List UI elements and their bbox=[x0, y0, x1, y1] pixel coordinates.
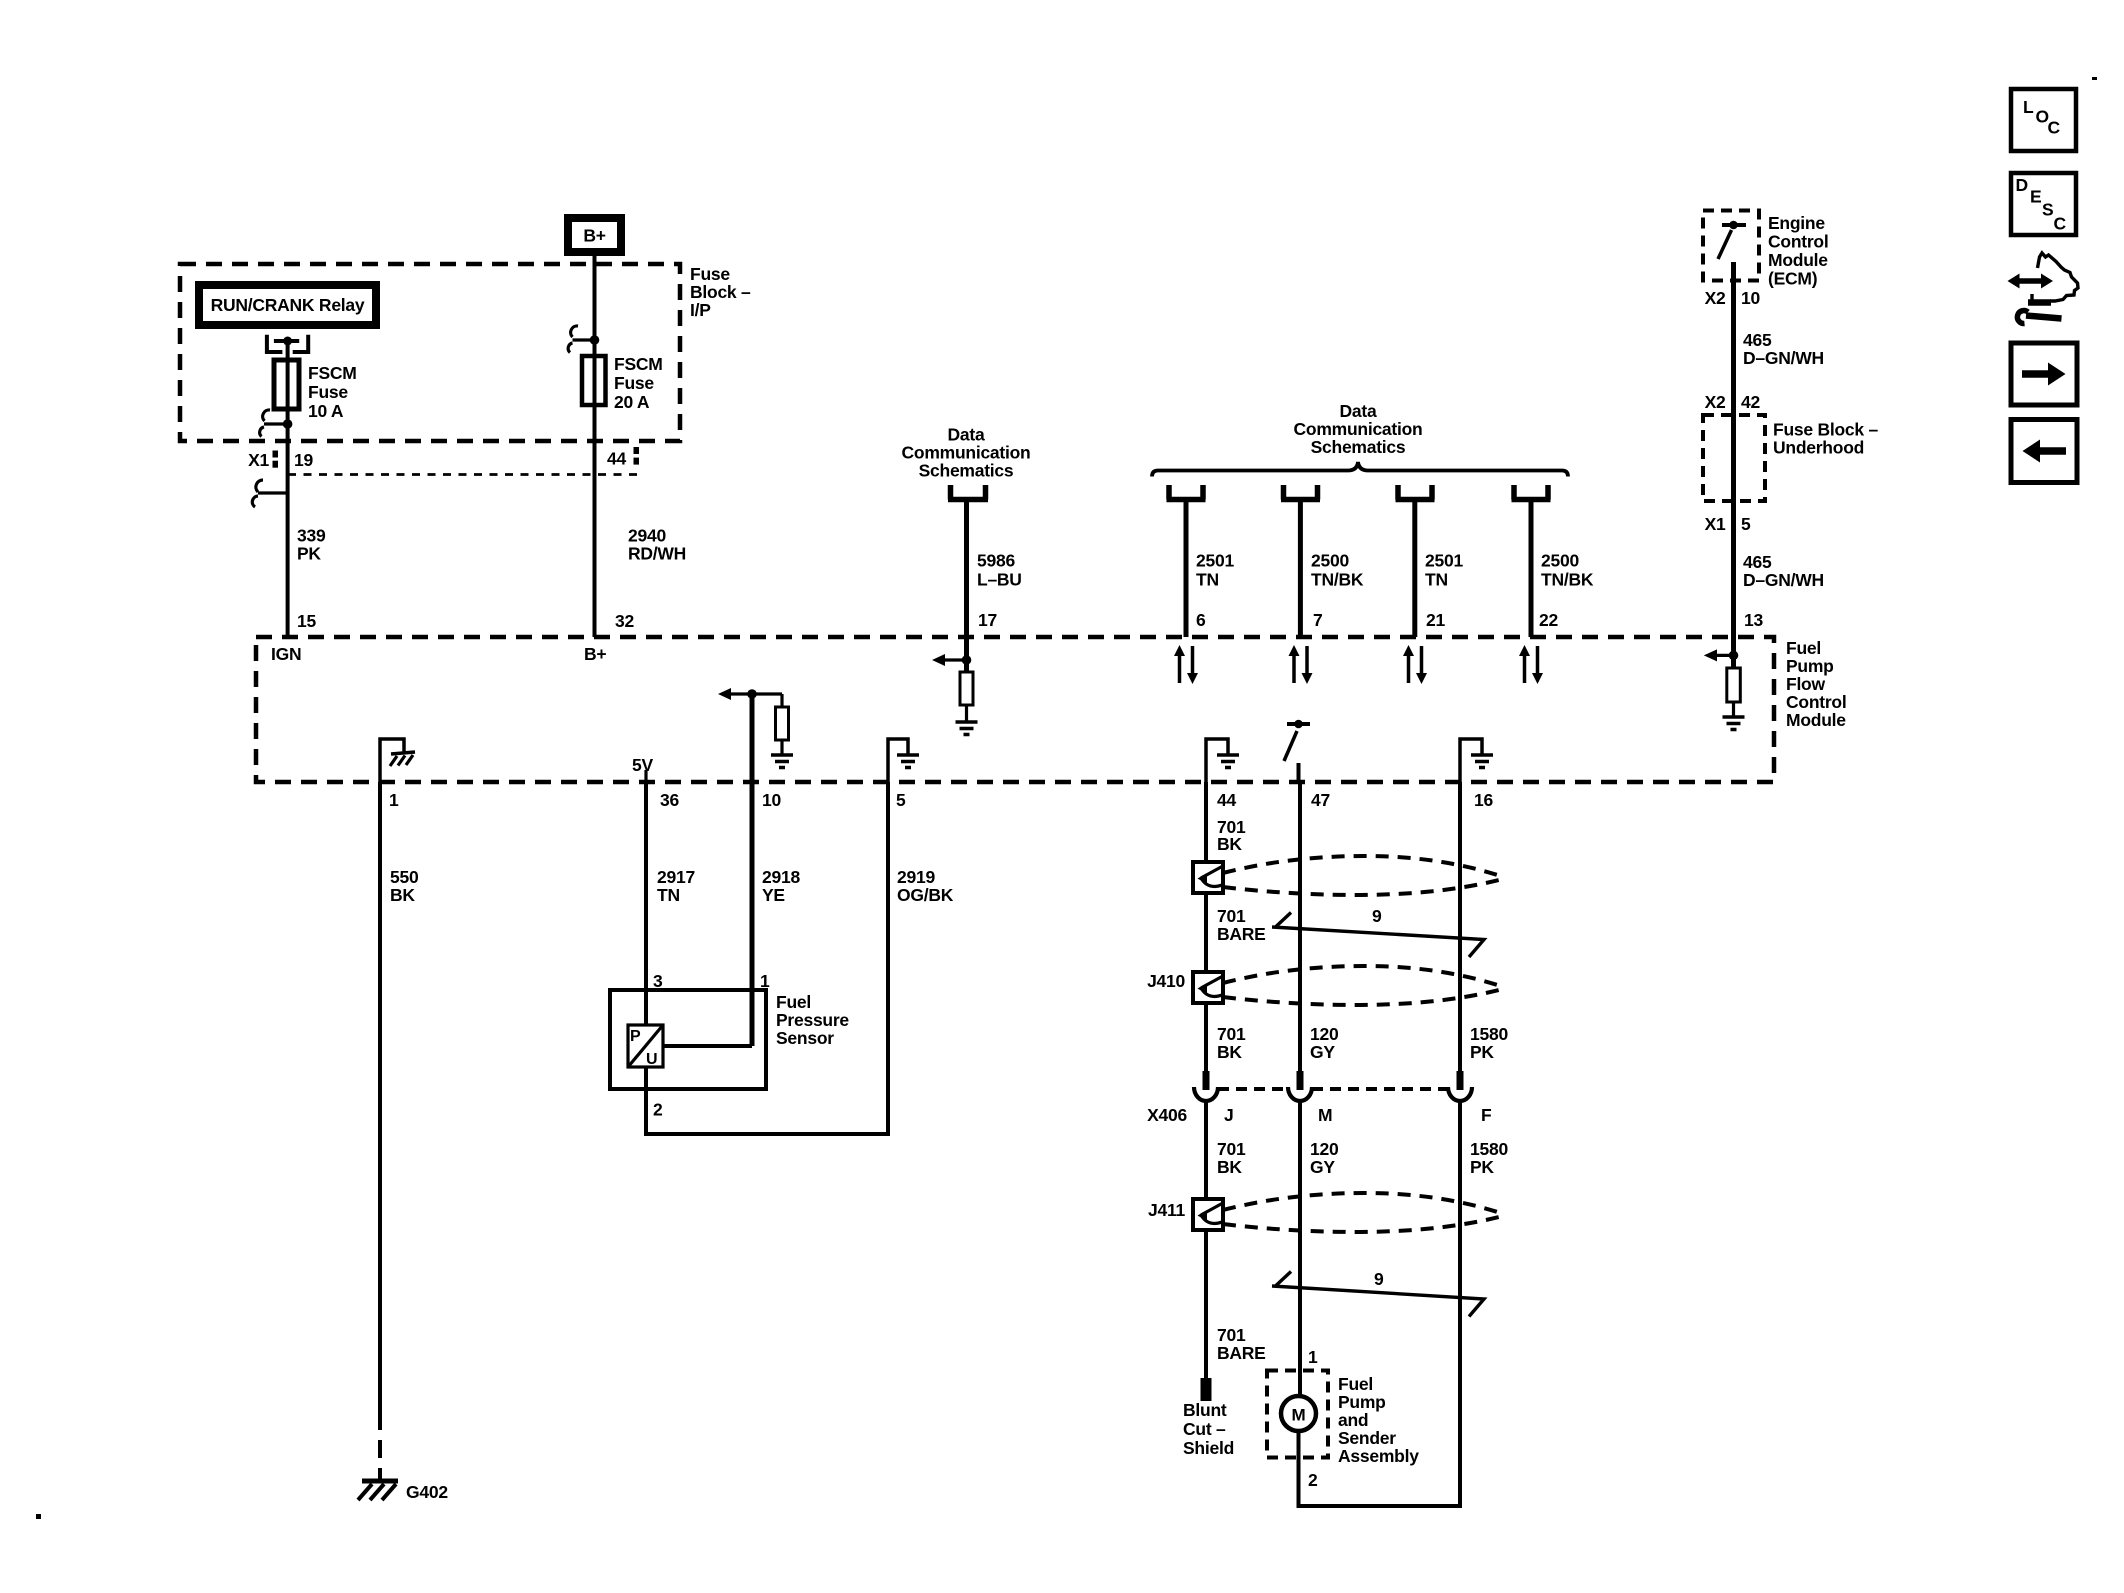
ground G402 bbox=[362, 1479, 398, 1484]
fuse F2 FSCM Fuse 20A bbox=[582, 356, 606, 405]
svg-text:Schematics: Schematics bbox=[1311, 437, 1406, 457]
svg-text:2501: 2501 bbox=[1425, 551, 1463, 571]
svg-text:TN: TN bbox=[1196, 570, 1219, 590]
svg-text:44: 44 bbox=[607, 449, 626, 469]
wire 1580 PK X406 down bbox=[1458, 1101, 1462, 1508]
svg-text:5V: 5V bbox=[632, 755, 653, 775]
svg-text:Block –: Block – bbox=[690, 282, 751, 302]
pin 13 internal: node, arrow, resistor, ground bbox=[1731, 637, 1736, 668]
svg-text:2500: 2500 bbox=[1311, 551, 1349, 571]
wire 701 BK X406 to J411 bbox=[1204, 1101, 1208, 1201]
pin 6 internal arrows bbox=[1174, 645, 1198, 684]
wire ECM pin X2-10 bbox=[1731, 262, 1736, 417]
svg-text:13: 13 bbox=[1744, 610, 1763, 630]
svg-text:GY: GY bbox=[1310, 1042, 1335, 1062]
svg-text:2919: 2919 bbox=[897, 867, 935, 887]
svg-text:5: 5 bbox=[896, 790, 906, 810]
svg-text:339: 339 bbox=[297, 526, 326, 546]
svg-text:D–GN/WH: D–GN/WH bbox=[1743, 348, 1824, 368]
svg-text:Communication: Communication bbox=[1294, 419, 1423, 439]
wire 2917 TN (pin 36 to sensor pin 3) bbox=[644, 782, 648, 1026]
svg-text:L: L bbox=[2023, 97, 2034, 117]
svg-text:Blunt: Blunt bbox=[1183, 1400, 1227, 1420]
svg-text:Sender: Sender bbox=[1338, 1428, 1396, 1448]
wire 2500 TN/BK to pin 7 bbox=[1298, 500, 1303, 638]
svg-text:Schematics: Schematics bbox=[919, 461, 1014, 481]
svg-text:Communication: Communication bbox=[902, 443, 1031, 463]
svg-text:OG/BK: OG/BK bbox=[897, 885, 954, 905]
svg-text:and: and bbox=[1338, 1410, 1368, 1430]
svg-text:47: 47 bbox=[1311, 790, 1330, 810]
svg-text:X1: X1 bbox=[248, 450, 269, 470]
svg-text:Module: Module bbox=[1786, 710, 1846, 730]
stray mark top right bbox=[2092, 77, 2097, 80]
svg-text:10: 10 bbox=[762, 790, 781, 810]
svg-text:FSCM: FSCM bbox=[308, 363, 357, 383]
relay contact bbox=[267, 335, 283, 352]
svg-text:Fuse: Fuse bbox=[690, 264, 730, 284]
svg-text:6: 6 bbox=[1196, 610, 1206, 630]
wire pump pin 2 loop to 1580 PK bbox=[1297, 1431, 1301, 1508]
wire 2501 TN to pin 21 bbox=[1412, 500, 1417, 638]
svg-text:Fuse: Fuse bbox=[308, 382, 348, 402]
off-page connector for wire 5986 bbox=[948, 485, 988, 500]
svg-text:X1: X1 bbox=[1705, 514, 1726, 534]
svg-text:2: 2 bbox=[653, 1100, 663, 1120]
shield ellipse 3 bbox=[1223, 1193, 1505, 1215]
wire 2918 YE (pin 10 to sensor pin 1) bbox=[750, 694, 755, 1046]
svg-text:M: M bbox=[1318, 1105, 1332, 1125]
node above fuse 20A with hook bbox=[590, 335, 600, 345]
motor M1 Fuel Pump and Sender Assembly dashed box bbox=[1267, 1371, 1328, 1458]
shield ellipse 1 bbox=[1223, 856, 1505, 878]
svg-text:465: 465 bbox=[1743, 330, 1772, 350]
wire B+ to fuse 20A bbox=[593, 255, 597, 358]
svg-text:2917: 2917 bbox=[657, 867, 695, 887]
svg-text:Pump: Pump bbox=[1338, 1392, 1386, 1412]
svg-text:19: 19 bbox=[294, 450, 313, 470]
svg-text:RUN/CRANK Relay: RUN/CRANK Relay bbox=[211, 295, 365, 315]
svg-text:1580: 1580 bbox=[1470, 1024, 1508, 1044]
svg-text:U: U bbox=[646, 1051, 657, 1068]
svg-text:PK: PK bbox=[297, 544, 321, 564]
svg-text:Engine: Engine bbox=[1768, 213, 1825, 233]
svg-text:21: 21 bbox=[1426, 610, 1445, 630]
brace over data wires bbox=[1152, 462, 1568, 477]
svg-text:2500: 2500 bbox=[1541, 551, 1579, 571]
svg-text:S: S bbox=[2042, 200, 2053, 220]
svg-text:1: 1 bbox=[389, 790, 399, 810]
wire 5986 L-BU bbox=[964, 500, 969, 638]
pin 10 internal: node, arrow, resistor, ground bbox=[747, 689, 757, 699]
wire pin2 to 2919 bbox=[644, 1132, 890, 1136]
svg-text:Data: Data bbox=[948, 425, 985, 445]
svg-text:IGN: IGN bbox=[271, 644, 301, 664]
svg-text:42: 42 bbox=[1741, 392, 1760, 412]
module U2 Engine Control Module dashed box bbox=[1703, 211, 1759, 281]
pin 1 internal chassis ground bbox=[380, 739, 404, 782]
svg-text:Pump: Pump bbox=[1786, 656, 1834, 676]
svg-text:Fuse Block –: Fuse Block – bbox=[1773, 420, 1878, 440]
wire 701 BARE to blunt cut bbox=[1204, 1230, 1208, 1380]
blunt cut shield terminal bbox=[1201, 1378, 1212, 1401]
svg-text:701: 701 bbox=[1217, 906, 1246, 926]
svg-text:GY: GY bbox=[1310, 1157, 1335, 1177]
svg-text:BK: BK bbox=[1217, 1157, 1242, 1177]
svg-text:550: 550 bbox=[390, 867, 419, 887]
hook on wire 339 bbox=[258, 491, 288, 494]
svg-text:BARE: BARE bbox=[1217, 924, 1266, 944]
svg-text:J411: J411 bbox=[1148, 1200, 1185, 1220]
relay K (RUN/CRANK Relay) label box bbox=[199, 285, 376, 325]
svg-text:Module: Module bbox=[1768, 250, 1828, 270]
svg-text:17: 17 bbox=[978, 610, 997, 630]
svg-text:32: 32 bbox=[615, 611, 634, 631]
svg-text:465: 465 bbox=[1743, 552, 1772, 572]
pin 47 internal switch bbox=[1287, 722, 1310, 726]
wire 120 GY pin 47 to X406 bbox=[1298, 782, 1302, 1072]
pin 17 internal: node, arrow, resistor, ground bbox=[964, 637, 969, 672]
svg-text:44: 44 bbox=[1217, 790, 1236, 810]
fuse block underhood dashed box bbox=[1703, 415, 1765, 501]
fuse F1 FSCM Fuse 10A bbox=[274, 360, 299, 409]
svg-text:B+: B+ bbox=[583, 226, 605, 246]
svg-text:C: C bbox=[2054, 214, 2067, 234]
wire 550 BK to ground bbox=[378, 782, 382, 1412]
svg-text:Fuel: Fuel bbox=[1338, 1374, 1373, 1394]
svg-text:Control: Control bbox=[1768, 232, 1828, 252]
svg-text:X2: X2 bbox=[1705, 288, 1726, 308]
svg-text:Flow: Flow bbox=[1786, 674, 1825, 694]
svg-text:BARE: BARE bbox=[1217, 1343, 1266, 1363]
pin 36 stub bbox=[644, 770, 647, 782]
connector boundary dashed line bbox=[288, 473, 637, 476]
svg-text:9: 9 bbox=[1372, 906, 1382, 926]
connector X406 terminal J bbox=[1203, 1071, 1210, 1090]
svg-text:36: 36 bbox=[660, 790, 679, 810]
shield ellipse 2 bbox=[1223, 966, 1505, 988]
P/U transducer symbol bbox=[628, 1025, 663, 1067]
off-page connector wire 2501 (pin 6) bbox=[1167, 485, 1206, 500]
pin 7 internal arrows bbox=[1289, 645, 1313, 684]
forward arrow icon box bbox=[2011, 343, 2077, 405]
svg-text:J410: J410 bbox=[1147, 971, 1185, 991]
wire 701 BK J410 to X406 bbox=[1204, 1003, 1208, 1072]
fuse block I/P dashed box bbox=[180, 264, 680, 441]
svg-text:15: 15 bbox=[297, 611, 316, 631]
svg-text:120: 120 bbox=[1310, 1139, 1339, 1159]
svg-text:BK: BK bbox=[390, 885, 415, 905]
svg-text:9: 9 bbox=[1374, 1269, 1384, 1289]
motor circle M bbox=[1281, 1396, 1316, 1431]
svg-text:2918: 2918 bbox=[762, 867, 800, 887]
switch inside ECM bbox=[1722, 223, 1746, 227]
wire 2500 TN/BK to pin 22 bbox=[1529, 500, 1534, 638]
svg-text:Assembly: Assembly bbox=[1338, 1446, 1419, 1466]
svg-text:1580: 1580 bbox=[1470, 1139, 1508, 1159]
off-page connector wire 2500 (pin 22) bbox=[1512, 485, 1551, 500]
SECTION: module box bbox=[256, 610, 1846, 810]
SECTION: sensor bbox=[358, 694, 954, 1502]
node below fuse 10A with hook bbox=[283, 419, 293, 429]
svg-text:BK: BK bbox=[1217, 1042, 1242, 1062]
svg-text:PK: PK bbox=[1470, 1042, 1494, 1062]
svg-text:2940: 2940 bbox=[628, 526, 666, 546]
svg-text:Fuse: Fuse bbox=[614, 373, 654, 393]
LOC icon box bbox=[2011, 89, 2076, 151]
wire 2501 TN to pin 6 bbox=[1184, 500, 1189, 638]
stray mark bottom left bbox=[36, 1514, 41, 1519]
svg-text:M: M bbox=[1292, 1406, 1306, 1425]
svg-text:120: 120 bbox=[1310, 1024, 1339, 1044]
svg-text:D: D bbox=[2016, 175, 2028, 195]
svg-text:FSCM: FSCM bbox=[614, 354, 663, 374]
svg-text:5986: 5986 bbox=[977, 551, 1015, 571]
SECTION: data comm bbox=[902, 401, 1594, 637]
wire 120 GY X406 to pump bbox=[1298, 1101, 1302, 1396]
svg-text:7: 7 bbox=[1313, 610, 1322, 630]
svg-text:L–BU: L–BU bbox=[977, 570, 1022, 590]
module U1 Fuel Pump Flow Control Module dashed box bbox=[256, 637, 1774, 782]
svg-text:10 A: 10 A bbox=[308, 401, 344, 421]
wire fuse 10A to pin 15 bbox=[286, 424, 290, 637]
pin 5 internal earth ground bbox=[888, 739, 908, 782]
connector X406 terminal F bbox=[1457, 1071, 1464, 1090]
pin 21 internal arrows bbox=[1403, 645, 1427, 684]
vehicle data icon (car, arrow, wrench) bbox=[2008, 253, 2079, 324]
svg-text:5: 5 bbox=[1741, 514, 1751, 534]
svg-text:TN/BK: TN/BK bbox=[1541, 570, 1594, 590]
pin 44 internal earth ground bbox=[1206, 739, 1228, 782]
svg-text:PK: PK bbox=[1470, 1157, 1494, 1177]
back arrow icon box bbox=[2011, 420, 2077, 483]
svg-text:P: P bbox=[630, 1028, 641, 1045]
svg-text:X2: X2 bbox=[1705, 392, 1726, 412]
splice S1 bbox=[1193, 862, 1223, 893]
svg-text:F: F bbox=[1481, 1105, 1492, 1125]
wire relay to fuse bbox=[286, 341, 290, 362]
SECTION: ECM column bbox=[1703, 211, 1878, 638]
svg-text:1: 1 bbox=[1308, 1347, 1318, 1367]
off-page connector wire 2501 (pin 21) bbox=[1396, 485, 1435, 500]
svg-text:701: 701 bbox=[1217, 1325, 1246, 1345]
svg-text:(ECM): (ECM) bbox=[1768, 269, 1817, 289]
svg-text:B+: B+ bbox=[584, 644, 606, 664]
wire 701 splice to J410 bbox=[1204, 893, 1208, 974]
svg-text:2: 2 bbox=[1308, 1470, 1318, 1490]
wire through fuse block underhood bbox=[1731, 415, 1736, 637]
wire 1580 PK pin 16 to X406 bbox=[1458, 782, 1462, 1072]
svg-text:Underhood: Underhood bbox=[1773, 438, 1864, 458]
wire sensor internal P/U to pin 1 bbox=[663, 1044, 752, 1048]
battery feed B+ box bbox=[568, 218, 621, 252]
SECTION: pump column bbox=[1147, 782, 1508, 1508]
off-page connector wire 2500 (pin 7) bbox=[1281, 485, 1320, 500]
wire 2919 OG/BK (pin 5 to sensor pin 2) bbox=[886, 782, 890, 1134]
pin 16 internal earth ground bbox=[1460, 739, 1482, 782]
svg-text:701: 701 bbox=[1217, 1024, 1246, 1044]
svg-text:TN: TN bbox=[1425, 570, 1448, 590]
wire sensor pin 2 down bbox=[644, 1067, 648, 1134]
svg-text:BK: BK bbox=[1217, 834, 1242, 854]
svg-text:YE: YE bbox=[762, 885, 785, 905]
svg-text:Fuel: Fuel bbox=[776, 992, 811, 1012]
svg-text:TN: TN bbox=[657, 885, 680, 905]
svg-text:701: 701 bbox=[1217, 1139, 1246, 1159]
svg-text:I/P: I/P bbox=[690, 300, 711, 320]
svg-text:G402: G402 bbox=[406, 1482, 448, 1502]
pin 22 internal arrows bbox=[1519, 645, 1543, 684]
svg-text:Cut –: Cut – bbox=[1183, 1419, 1226, 1439]
svg-text:22: 22 bbox=[1539, 610, 1558, 630]
DESC icon box bbox=[2011, 173, 2076, 235]
svg-text:20 A: 20 A bbox=[614, 392, 650, 412]
svg-text:Shield: Shield bbox=[1183, 1438, 1234, 1458]
svg-text:RD/WH: RD/WH bbox=[628, 544, 686, 564]
connector X406 terminal M bbox=[1297, 1071, 1304, 1090]
svg-text:16: 16 bbox=[1474, 790, 1493, 810]
svg-text:2501: 2501 bbox=[1196, 551, 1234, 571]
svg-text:Pressure: Pressure bbox=[776, 1010, 849, 1030]
svg-text:Fuel: Fuel bbox=[1786, 638, 1821, 658]
connector X406 dashed tie line bbox=[1218, 1087, 1290, 1091]
svg-text:D–GN/WH: D–GN/WH bbox=[1743, 570, 1824, 590]
svg-text:E: E bbox=[2030, 187, 2041, 207]
sensor B1 Fuel Pressure Sensor box bbox=[610, 990, 766, 1089]
svg-text:C: C bbox=[2048, 118, 2061, 138]
svg-text:TN/BK: TN/BK bbox=[1311, 570, 1364, 590]
svg-text:X406: X406 bbox=[1147, 1105, 1187, 1125]
svg-text:Sensor: Sensor bbox=[776, 1028, 834, 1048]
svg-text:Control: Control bbox=[1786, 692, 1846, 712]
svg-text:Data: Data bbox=[1340, 401, 1377, 421]
svg-text:J: J bbox=[1224, 1105, 1233, 1125]
SECTION: top-left fuse block bbox=[180, 218, 751, 637]
svg-text:10: 10 bbox=[1741, 288, 1760, 308]
wire 701 BK pin 44 to splice bbox=[1204, 782, 1208, 864]
